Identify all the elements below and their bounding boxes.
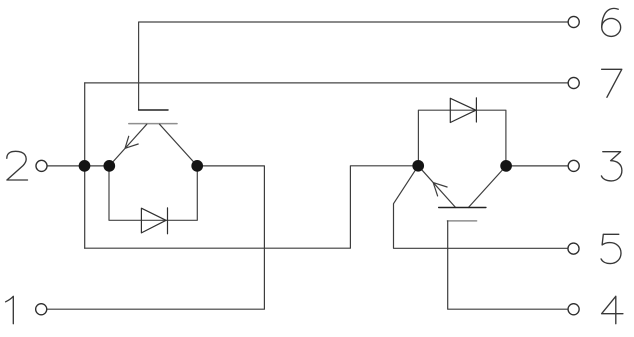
terminal pin 1 [36, 304, 47, 315]
wire Q2 gate to pin4 [448, 221, 568, 309]
pin label 4 [602, 296, 623, 323]
transistor Q2 gate bar [447, 220, 476, 222]
wire pin2 [47, 165, 109, 167]
transistor Q1 emitter diagonal [109, 124, 147, 166]
wire Q1 collector to pin1 [47, 166, 264, 309]
pin label 3 [601, 152, 622, 181]
node dot J2 [103, 160, 115, 172]
wire pin6 to gate of Q1 [139, 22, 568, 110]
terminal pin 3 [568, 160, 579, 171]
node dot J3 [191, 160, 203, 172]
transistor Q1 emitter arrow [125, 136, 138, 148]
transistor Q2 collector diagonal [468, 166, 506, 208]
node dot J5 [500, 160, 512, 172]
pin label 6 [602, 8, 621, 36]
diode D2 loop wire [418, 110, 506, 166]
node dot J4 [412, 160, 424, 172]
wire pin3 [512, 165, 568, 167]
transistor Q2 channel bar [439, 207, 486, 209]
node dot J1 [79, 160, 91, 172]
pin label 2 [7, 151, 28, 180]
wire emitter bus vertical [84, 83, 86, 248]
wire cross link emitter1 to Q2 node [85, 166, 413, 248]
diode D1 [141, 208, 167, 234]
transistor Q1 channel bar [129, 123, 177, 125]
terminal pin 5 [568, 243, 579, 254]
terminal pin 2 [36, 160, 47, 171]
transistor Q1 gate bar [139, 109, 168, 111]
wire Q2 aux emitter to pin5 [394, 166, 568, 249]
diode D1 loop wire [109, 166, 197, 220]
terminal pin 4 [568, 304, 579, 315]
transistor Q1 collector diagonal [160, 124, 198, 166]
pin label 5 [601, 234, 621, 263]
terminal pin 6 [568, 16, 579, 27]
transistor Q2 emitter arrow [433, 183, 447, 196]
pin label 1 [6, 296, 14, 323]
terminal pin 7 [568, 77, 579, 88]
wire pin7 [85, 82, 568, 84]
pin label 7 [602, 69, 622, 97]
transistor Q2 emitter diagonal [418, 166, 455, 208]
diode D2 [450, 98, 476, 123]
